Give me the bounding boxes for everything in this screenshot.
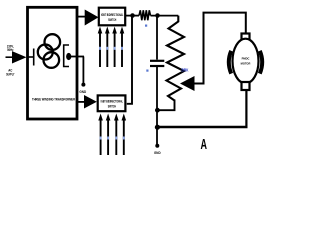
svg-text:THREE WINDING TRANSFORMER: THREE WINDING TRANSFORMER [32, 97, 76, 101]
svg-text:IGBT BIDIRECTIONAL: IGBT BIDIRECTIONAL [101, 13, 123, 17]
svg-text:SWITCH: SWITCH [108, 105, 117, 109]
svg-text:GND: GND [154, 151, 161, 155]
svg-text:SUPPLY: SUPPLY [6, 73, 15, 77]
svg-text:IGBT BIDIRECTIONAL: IGBT BIDIRECTIONAL [101, 100, 123, 104]
svg-text:PMDC: PMDC [242, 57, 250, 61]
svg-text:BRK: BRK [182, 68, 189, 73]
svg-text:SWITCH: SWITCH [108, 18, 117, 22]
svg-text:GND: GND [79, 90, 86, 94]
svg-text:50Hz: 50Hz [7, 48, 14, 52]
svg-text:MOTOR: MOTOR [241, 62, 251, 66]
svg-text:A: A [201, 136, 208, 153]
